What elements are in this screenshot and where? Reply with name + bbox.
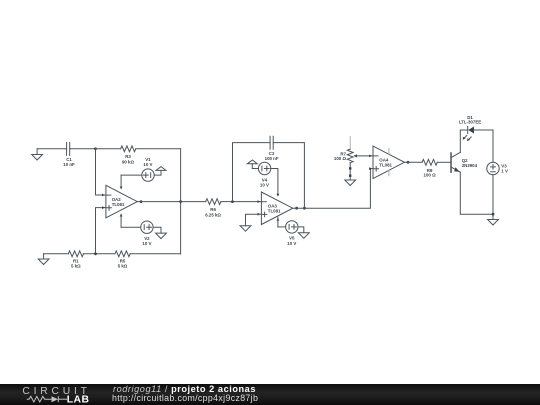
svg-text:100 Ω: 100 Ω bbox=[424, 172, 437, 177]
wire ground to C1 bbox=[37, 148, 67, 150]
wire right feedback vertical bbox=[180, 149, 182, 254]
wire OA4 output to R8 bbox=[404, 161, 422, 163]
node junction OA3 output / C2 bbox=[303, 207, 306, 210]
svg-text:TL081: TL081 bbox=[379, 163, 392, 168]
node junction R1/R5 bbox=[94, 252, 97, 255]
svg-text:6.25 kΩ: 6.25 kΩ bbox=[205, 212, 221, 217]
ground (OA3 + input) bbox=[240, 214, 261, 231]
wire C1 to junction bbox=[70, 148, 96, 150]
ground (R7) bbox=[345, 180, 356, 186]
wire C2 feedback left vertical bbox=[233, 143, 271, 202]
wire collector up to D1 bbox=[460, 130, 467, 152]
svg-text:10 V: 10 V bbox=[260, 183, 269, 188]
voltage source V2 bbox=[121, 221, 153, 246]
resistor R5 bbox=[115, 251, 130, 268]
power flag up (V4) bbox=[247, 160, 257, 169]
voltage source V5 bbox=[278, 221, 298, 246]
svg-text:TL081: TL081 bbox=[268, 209, 281, 214]
footer bar bbox=[0, 384, 540, 405]
svg-text:10 nF: 10 nF bbox=[63, 162, 75, 167]
wire R5 to right vertical bbox=[130, 253, 181, 255]
op-amp OA2 bbox=[102, 175, 142, 227]
resistor R3 bbox=[121, 146, 136, 164]
ground (left of C1) bbox=[32, 149, 43, 160]
CircuitLab logo bbox=[0, 384, 110, 405]
voltage source V4 bbox=[252, 162, 270, 187]
svg-text:10 V: 10 V bbox=[143, 162, 152, 167]
wire left vertical to inverting input bbox=[96, 149, 106, 195]
svg-text:LTL-307EE: LTL-307EE bbox=[459, 120, 481, 125]
svg-text:10 V: 10 V bbox=[142, 241, 151, 246]
op-amp OA3 bbox=[258, 192, 299, 227]
wire R6 to OA3 bbox=[221, 201, 262, 203]
svg-text:LAB: LAB bbox=[67, 395, 90, 405]
ground (V2) bbox=[153, 227, 166, 238]
wire noninverting input to bottom bbox=[96, 208, 106, 254]
wire OA2 output to R6 bbox=[137, 201, 205, 203]
svg-text:1 V: 1 V bbox=[501, 169, 508, 174]
wire R8 to Q2 base bbox=[437, 161, 450, 163]
wire R3 to right vertical bbox=[136, 148, 181, 150]
svg-text:2N3904: 2N3904 bbox=[462, 163, 478, 168]
wire C2 to right vertical down to output bbox=[273, 143, 304, 208]
transistor Q2 bbox=[451, 152, 478, 172]
diode D1 (LED) bbox=[459, 115, 481, 141]
svg-text:100 nF: 100 nF bbox=[265, 156, 279, 161]
svg-text:5 kΩ: 5 kΩ bbox=[118, 263, 128, 268]
wire OA3 output to OA4 + input bbox=[293, 169, 373, 209]
footer text bbox=[113, 384, 256, 394]
node junction feedback C2 bbox=[231, 200, 234, 203]
wire R7 wiper to OA4 - input bbox=[355, 155, 373, 157]
resistor R1 bbox=[68, 251, 83, 268]
wire V4 to OA3 V+ pin bbox=[271, 169, 278, 195]
node output OA2 / feedback bbox=[179, 200, 182, 203]
svg-text:5 kΩ: 5 kΩ bbox=[71, 263, 81, 268]
svg-text:100 Ω: 100 Ω bbox=[334, 156, 347, 161]
ground (V5) bbox=[298, 227, 309, 238]
wire V3 down to emitter rail bbox=[460, 172, 493, 214]
capacitor C1 bbox=[63, 142, 75, 167]
resistor R8 bbox=[422, 159, 437, 177]
potentiometer R7 bbox=[334, 137, 357, 181]
svg-text:10 V: 10 V bbox=[287, 241, 296, 246]
wire ground to R1 bbox=[44, 253, 69, 255]
wire junction to R3 bbox=[96, 148, 121, 150]
resistor R6 bbox=[205, 199, 221, 218]
wire D1 to V3 bbox=[474, 130, 493, 162]
ground (bottom left) bbox=[38, 254, 49, 265]
op-amp OA4 bbox=[369, 146, 409, 179]
node junction V3/emitter/ground bbox=[492, 213, 495, 216]
ground (V3) bbox=[488, 214, 499, 225]
svg-text:TL081: TL081 bbox=[112, 202, 125, 207]
wire R1 to junction bbox=[83, 253, 115, 255]
capacitor C2 bbox=[265, 136, 279, 161]
svg-text:90 kΩ: 90 kΩ bbox=[122, 159, 135, 164]
node junction C1/R3/opamp bbox=[94, 147, 97, 150]
voltage source V3 bbox=[487, 162, 508, 174]
voltage source V1 bbox=[121, 157, 154, 181]
power flag up (V1) bbox=[154, 167, 166, 176]
